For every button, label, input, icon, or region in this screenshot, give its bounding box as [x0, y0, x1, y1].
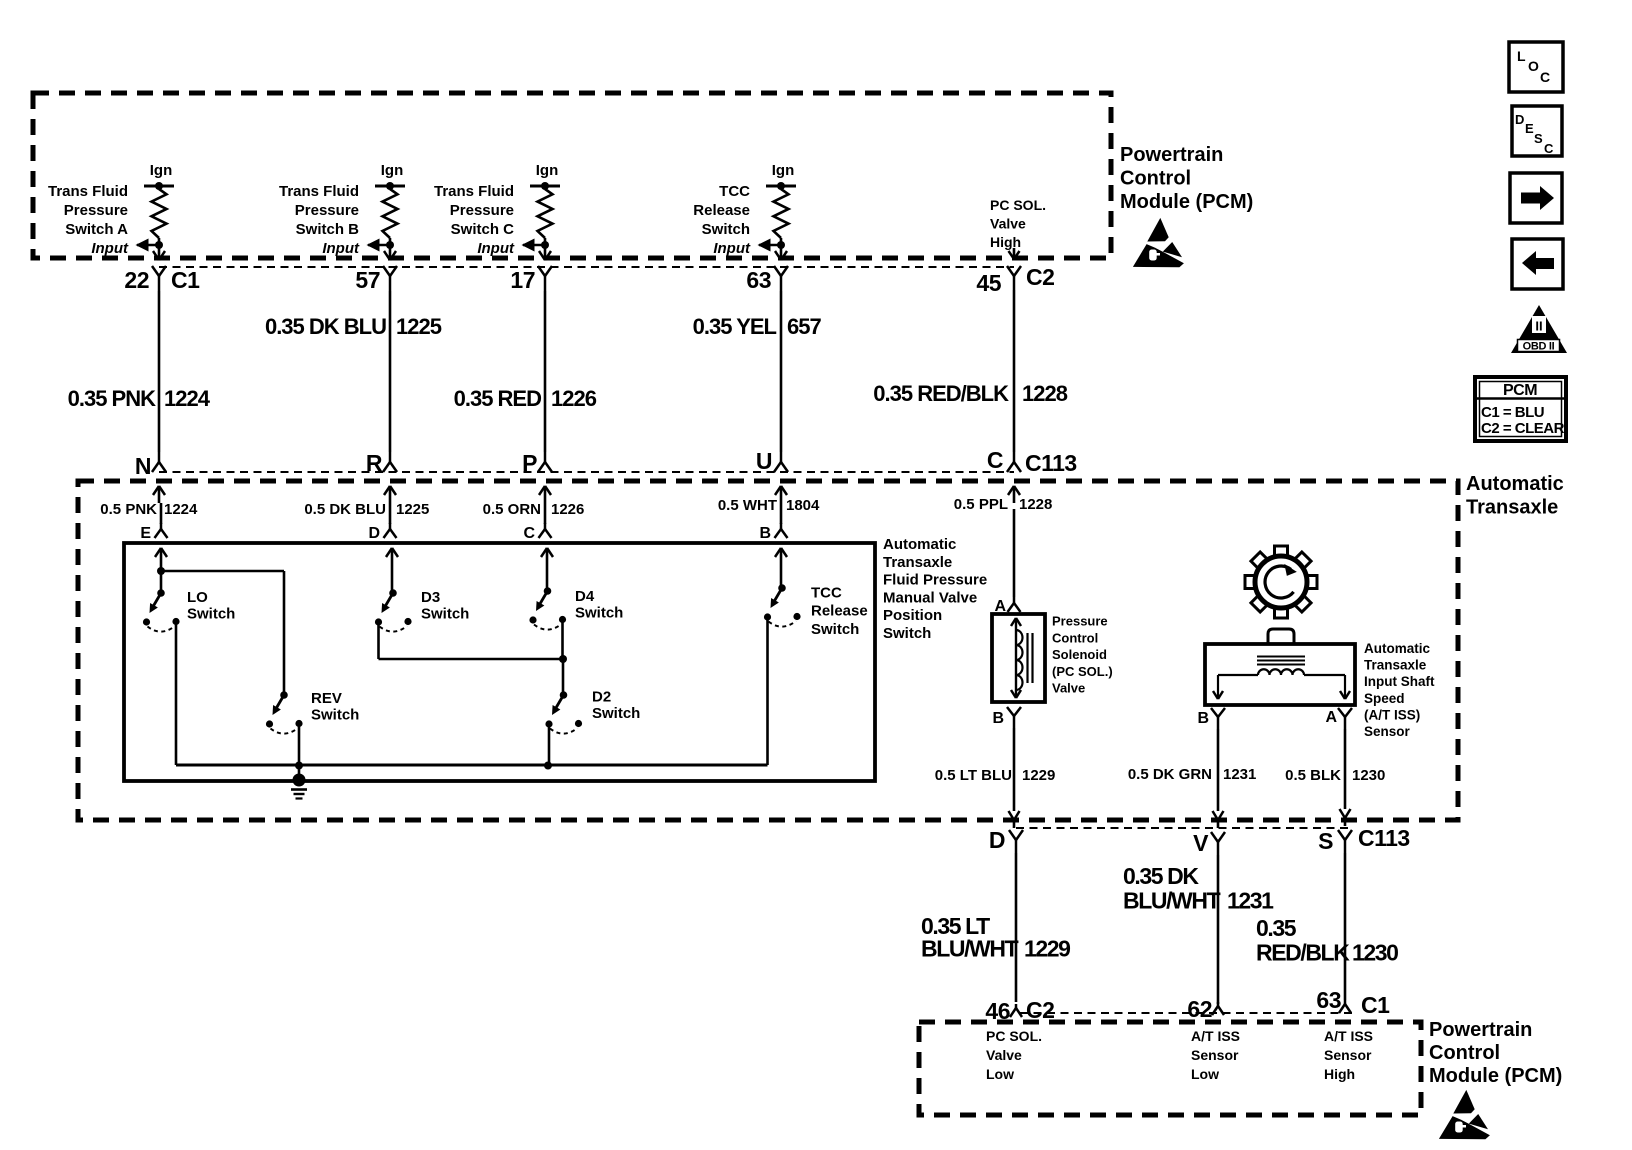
svg-text:0.5 ORN: 0.5 ORN	[483, 501, 541, 518]
svg-text:0.35 YEL: 0.35 YEL	[693, 314, 777, 339]
svg-text:Input: Input	[322, 240, 360, 257]
svg-text:A: A	[1325, 709, 1337, 726]
svg-text:Manual Valve: Manual Valve	[883, 589, 977, 606]
svg-text:0.35 PNK: 0.35 PNK	[68, 386, 156, 411]
svg-text:1224: 1224	[164, 386, 211, 411]
svg-text:0.5 DK GRN: 0.5 DK GRN	[1128, 766, 1212, 783]
svg-text:C113: C113	[1025, 450, 1077, 476]
svg-text:Switch: Switch	[592, 705, 640, 722]
svg-text:C: C	[1544, 141, 1554, 156]
svg-text:C2 = CLEAR: C2 = CLEAR	[1481, 420, 1565, 437]
svg-text:(PC SOL.): (PC SOL.)	[1052, 664, 1113, 679]
svg-text:D: D	[368, 525, 380, 542]
svg-text:0.5 PNK: 0.5 PNK	[100, 501, 157, 518]
svg-text:Valve: Valve	[986, 1047, 1022, 1063]
svg-text:B: B	[992, 710, 1004, 727]
svg-text:0.5 PPL: 0.5 PPL	[954, 496, 1008, 513]
svg-text:Fluid Pressure: Fluid Pressure	[883, 572, 987, 589]
svg-text:Ign: Ign	[536, 162, 559, 179]
svg-text:63: 63	[1316, 987, 1341, 1013]
svg-text:B: B	[759, 525, 771, 542]
svg-text:Transaxle: Transaxle	[1364, 658, 1427, 673]
svg-text:Automatic: Automatic	[883, 536, 956, 553]
svg-text:Ign: Ign	[381, 162, 404, 179]
svg-text:Release: Release	[811, 603, 868, 620]
svg-text:E: E	[1525, 121, 1534, 136]
svg-text:PC SOL.: PC SOL.	[990, 197, 1046, 213]
svg-text:Switch A: Switch A	[65, 221, 128, 238]
svg-text:1224: 1224	[164, 501, 198, 518]
svg-text:Module (PCM): Module (PCM)	[1429, 1065, 1562, 1087]
svg-text:U: U	[756, 448, 772, 474]
svg-text:C1: C1	[171, 267, 200, 293]
svg-text:62: 62	[1187, 996, 1212, 1022]
svg-text:1231: 1231	[1223, 766, 1256, 783]
svg-text:(A/T ISS): (A/T ISS)	[1364, 707, 1420, 722]
svg-text:1231: 1231	[1227, 888, 1274, 914]
svg-text:Pressure: Pressure	[295, 202, 359, 219]
svg-text:C2: C2	[1026, 264, 1054, 290]
svg-text:Speed: Speed	[1364, 691, 1405, 706]
svg-text:D2: D2	[592, 689, 611, 706]
svg-text:Automatic: Automatic	[1364, 641, 1430, 656]
svg-text:1229: 1229	[1024, 936, 1070, 962]
svg-text:BLU/WHT: BLU/WHT	[1123, 888, 1221, 914]
svg-text:C: C	[1540, 69, 1550, 85]
svg-text:Valve: Valve	[1052, 681, 1085, 696]
svg-text:657: 657	[787, 314, 821, 339]
svg-text:A/T ISS: A/T ISS	[1324, 1028, 1373, 1044]
svg-text:OBD II: OBD II	[1523, 341, 1555, 353]
svg-text:Switch: Switch	[883, 625, 931, 642]
svg-text:Trans Fluid: Trans Fluid	[48, 183, 128, 200]
svg-text:Sensor: Sensor	[1191, 1047, 1239, 1063]
svg-text:1228: 1228	[1022, 381, 1068, 406]
svg-text:Ign: Ign	[772, 162, 795, 179]
svg-text:Input: Input	[713, 240, 751, 257]
svg-text:Control: Control	[1120, 168, 1191, 190]
svg-text:S: S	[1534, 131, 1543, 146]
svg-text:C2: C2	[1026, 997, 1054, 1023]
svg-text:17: 17	[510, 267, 535, 293]
svg-text:C113: C113	[1358, 825, 1410, 851]
svg-text:Switch: Switch	[575, 605, 623, 622]
svg-text:D: D	[989, 827, 1005, 853]
svg-text:Input Shaft: Input Shaft	[1364, 674, 1435, 689]
svg-text:0.35 DK: 0.35 DK	[1123, 863, 1199, 889]
svg-text:High: High	[990, 234, 1021, 250]
svg-text:Position: Position	[883, 607, 942, 624]
svg-text:D4: D4	[575, 588, 595, 605]
svg-text:Transaxle: Transaxle	[1466, 497, 1558, 519]
svg-text:PC SOL.: PC SOL.	[986, 1028, 1042, 1044]
svg-text:REV: REV	[311, 690, 342, 707]
svg-text:Transaxle: Transaxle	[883, 554, 952, 571]
svg-text:C: C	[987, 447, 1003, 473]
svg-text:Low: Low	[1191, 1066, 1219, 1082]
svg-text:II: II	[1535, 319, 1542, 334]
svg-text:Switch C: Switch C	[451, 221, 515, 238]
svg-text:Pressure: Pressure	[450, 202, 514, 219]
svg-text:0.5 WHT: 0.5 WHT	[718, 497, 777, 514]
svg-text:C1: C1	[1361, 992, 1390, 1018]
svg-text:Pressure: Pressure	[64, 202, 128, 219]
svg-text:RED/BLK: RED/BLK	[1256, 940, 1350, 966]
svg-text:0.35: 0.35	[1256, 915, 1297, 941]
svg-text:1225: 1225	[396, 314, 442, 339]
svg-text:0.5 BLK: 0.5 BLK	[1285, 767, 1341, 784]
svg-text:Solenoid: Solenoid	[1052, 647, 1107, 662]
svg-text:0.35 DK BLU: 0.35 DK BLU	[265, 314, 386, 339]
svg-text:0.35 RED: 0.35 RED	[454, 386, 541, 411]
svg-text:Release: Release	[693, 202, 750, 219]
svg-text:C: C	[523, 525, 535, 542]
svg-text:1230: 1230	[1352, 940, 1398, 966]
svg-text:PCM: PCM	[1503, 382, 1537, 399]
svg-text:O: O	[1528, 58, 1539, 74]
svg-text:0.5 DK BLU: 0.5 DK BLU	[304, 501, 386, 518]
svg-text:Switch: Switch	[187, 606, 235, 623]
svg-text:Switch B: Switch B	[296, 221, 360, 238]
svg-text:57: 57	[355, 267, 380, 293]
svg-text:Trans Fluid: Trans Fluid	[279, 183, 359, 200]
svg-text:Switch: Switch	[811, 621, 859, 638]
svg-text:TCC: TCC	[811, 585, 842, 602]
svg-text:LO: LO	[187, 589, 208, 606]
svg-text:Switch: Switch	[311, 707, 359, 724]
svg-text:Valve: Valve	[990, 216, 1026, 232]
svg-text:Powertrain: Powertrain	[1120, 144, 1223, 166]
svg-text:22: 22	[124, 267, 149, 293]
svg-text:Powertrain: Powertrain	[1429, 1019, 1532, 1041]
svg-text:Input: Input	[91, 240, 129, 257]
svg-text:C1 = BLU: C1 = BLU	[1481, 404, 1544, 421]
svg-text:0.5 LT BLU: 0.5 LT BLU	[935, 767, 1012, 784]
svg-text:D3: D3	[421, 589, 440, 606]
svg-text:BLU/WHT: BLU/WHT	[921, 936, 1019, 962]
svg-text:S: S	[1318, 828, 1333, 854]
svg-text:D: D	[1515, 112, 1524, 127]
svg-text:45: 45	[976, 270, 1001, 296]
svg-text:1226: 1226	[551, 386, 597, 411]
svg-text:1230: 1230	[1352, 767, 1385, 784]
svg-text:Pressure: Pressure	[1052, 614, 1108, 629]
svg-text:63: 63	[746, 267, 771, 293]
svg-text:Switch: Switch	[421, 606, 469, 623]
svg-text:1226: 1226	[551, 501, 584, 518]
svg-text:Control: Control	[1429, 1042, 1500, 1064]
svg-text:High: High	[1324, 1066, 1355, 1082]
svg-text:Trans Fluid: Trans Fluid	[434, 183, 514, 200]
svg-text:Automatic: Automatic	[1466, 473, 1564, 495]
svg-text:B: B	[1197, 710, 1209, 727]
svg-text:Sensor: Sensor	[1324, 1047, 1372, 1063]
svg-text:0.35 RED/BLK: 0.35 RED/BLK	[873, 381, 1009, 406]
svg-text:1229: 1229	[1022, 767, 1055, 784]
svg-text:1225: 1225	[396, 501, 429, 518]
svg-text:V: V	[1193, 830, 1209, 856]
svg-text:Sensor: Sensor	[1364, 724, 1411, 739]
svg-text:Module (PCM): Module (PCM)	[1120, 191, 1253, 213]
svg-text:Low: Low	[986, 1066, 1014, 1082]
svg-text:L: L	[1517, 48, 1526, 64]
svg-text:N: N	[135, 453, 151, 479]
svg-text:Control: Control	[1052, 630, 1098, 645]
svg-text:Input: Input	[477, 240, 515, 257]
svg-text:1228: 1228	[1019, 496, 1052, 513]
svg-text:TCC: TCC	[719, 183, 750, 200]
svg-text:A/T ISS: A/T ISS	[1191, 1028, 1240, 1044]
svg-text:Switch: Switch	[702, 221, 750, 238]
svg-text:E: E	[140, 525, 151, 542]
svg-text:1804: 1804	[786, 497, 820, 514]
svg-text:Ign: Ign	[150, 162, 173, 179]
